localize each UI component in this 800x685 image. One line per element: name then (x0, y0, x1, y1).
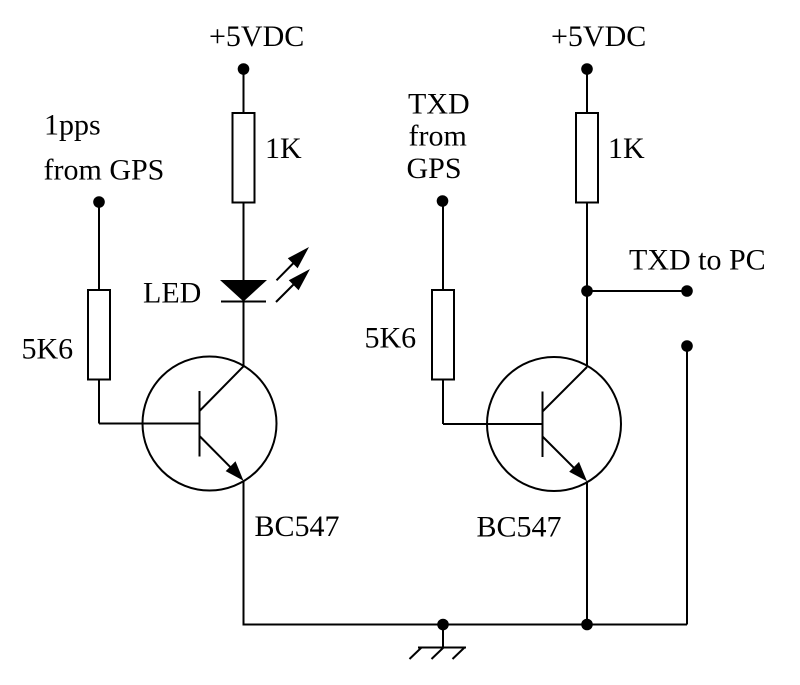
wire to Q1 base (99, 423, 200, 425)
wire +5VDC dot to R1 top (243, 69, 245, 113)
wire TXD dot to R4 top (442, 201, 444, 290)
wire Q1 emitter to ground rail (243, 481, 245, 626)
svg-text:LED: LED (143, 277, 201, 310)
node +5VDC right supply dot (581, 63, 593, 75)
wire 1pps dot to R2 top (98, 202, 100, 290)
wire TXD junction to Q2 collector (586, 291, 588, 366)
svg-text:5K6: 5K6 (365, 322, 417, 355)
resistor R1 1K (left) (233, 113, 255, 203)
wire PC ground terminal to ground rail (686, 346, 688, 625)
junction dot TXD node (581, 285, 593, 297)
wire ground rail (244, 624, 688, 626)
node TXD to PC terminal dot (681, 285, 693, 297)
svg-text:GPS: GPS (407, 152, 462, 185)
transistor Q1 BC547 (143, 357, 277, 491)
resistor R2 5K6 (left) (88, 290, 110, 380)
wire R2 bottom down (98, 380, 100, 424)
node PC ground terminal dot (681, 340, 693, 352)
junction dot Q2 emitter at rail (581, 619, 593, 631)
wire +5VDC dot to R3 top (586, 69, 588, 113)
wire R4 bottom down (442, 380, 444, 425)
LED emission arrow upper (277, 247, 310, 280)
svg-text:1K: 1K (265, 132, 302, 165)
svg-text:BC547: BC547 (255, 510, 340, 543)
svg-text:1K: 1K (608, 132, 645, 165)
junction dot ground node (437, 619, 449, 631)
ground (410, 625, 467, 660)
resistor R3 1K (right) (576, 113, 598, 203)
svg-text:+5VDC: +5VDC (209, 20, 304, 53)
svg-text:TXD: TXD (408, 88, 470, 121)
svg-text:TXD to PC: TXD to PC (629, 244, 766, 277)
svg-text:BC547: BC547 (477, 511, 562, 544)
wire Q2 emitter to ground rail (586, 481, 588, 624)
node +5VDC left supply dot (238, 63, 250, 75)
wire to Q2 base (443, 423, 543, 425)
svg-text:1pps: 1pps (44, 109, 101, 142)
node 1pps input dot (93, 196, 105, 208)
wire TXD node to PC terminal (587, 290, 687, 292)
LED D1 (220, 280, 267, 302)
wire R1 bottom to LED anode (243, 203, 245, 281)
transistor Q2 BC547 (487, 357, 621, 491)
LED emission arrow lower (276, 269, 310, 302)
svg-text:+5VDC: +5VDC (551, 20, 646, 53)
resistor R4 5K6 (right) (432, 290, 454, 380)
svg-text:5K6: 5K6 (22, 333, 74, 366)
wire R3 bottom to TXD junction (586, 203, 588, 292)
svg-text:from GPS: from GPS (44, 154, 165, 187)
node TXD input dot (437, 195, 449, 207)
wire LED cathode to Q1 collector (243, 302, 245, 367)
svg-text:from: from (409, 120, 467, 153)
